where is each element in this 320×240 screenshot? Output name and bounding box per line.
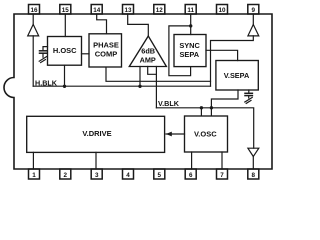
svg-text:V.SEPA: V.SEPA (224, 71, 250, 80)
svg-text:15: 15 (62, 7, 70, 14)
pin 3 box (91, 169, 102, 179)
pin 14 box (91, 5, 102, 15)
svg-text:10: 10 (218, 7, 226, 14)
wire H.OSC bottom to H.BLK bus (64, 65, 66, 86)
op-amp 6dB AMP triangle (129, 36, 166, 67)
wire 6dB AMP base left leg to H.BLK (139, 67, 141, 87)
node dot V.BLK/V.OSC (200, 106, 203, 109)
svg-text:11: 11 (187, 7, 194, 14)
svg-text:16: 16 (30, 7, 38, 14)
wire V.OSC to pin6 (191, 152, 193, 169)
wire V.OSC to V.DRIVE with arrow (166, 133, 185, 135)
wire buffer output down to H.BLK line (32, 36, 34, 86)
svg-text:6dB: 6dB (141, 46, 155, 55)
svg-text:3: 3 (95, 172, 99, 179)
pin 4 box (123, 169, 134, 179)
svg-text:SEPA: SEPA (180, 50, 200, 59)
block V.OSC (185, 116, 228, 152)
wire pin9 buffer output to vertical bus (211, 36, 254, 86)
wire pin11 to SYNC SEPA top (190, 14, 192, 35)
svg-text:12: 12 (156, 7, 164, 14)
wire pin16 to buffer (32, 14, 34, 24)
block V.SEPA (216, 61, 258, 91)
svg-text:H.OSC: H.OSC (53, 46, 77, 55)
svg-text:V.OSC: V.OSC (194, 130, 217, 139)
capacitor at H.OSC left (39, 47, 47, 63)
wire buffer to pin8 (252, 157, 254, 170)
wire 6dB AMP base middle leg (148, 67, 157, 75)
wire H.BLK bus (33, 85, 210, 87)
svg-text:7: 7 (220, 172, 224, 179)
wire pin9 to buffer (252, 14, 254, 25)
wire V.BLK to V.OSC top (200, 108, 202, 116)
pin 8 box (248, 169, 259, 179)
pin 16 box (29, 5, 40, 15)
wire PHASE COMP bottom bus to node under SYNC SEPA (106, 68, 211, 82)
svg-text:8: 8 (252, 172, 256, 179)
block SYNC SEPA (174, 35, 206, 67)
pin 9 box (248, 5, 259, 15)
block PHASE COMP (89, 34, 122, 67)
svg-text:SYNC: SYNC (179, 41, 200, 50)
buffer amp under pin 16 (28, 24, 39, 36)
wire H.OSC right to PHASE COMP left (82, 53, 90, 55)
pin 11 box (185, 5, 196, 15)
svg-text:AMP: AMP (140, 55, 156, 64)
svg-text:13: 13 (124, 7, 132, 14)
pin 12 box (154, 5, 165, 15)
svg-text:1: 1 (32, 172, 36, 179)
svg-text:H.BLK: H.BLK (35, 78, 58, 87)
pin 5 box (154, 169, 165, 179)
buffer amp under pin 9 (248, 25, 259, 36)
pin 2 box (60, 169, 71, 179)
wire pin11 branch loop to SYNC SEPA bottom (169, 26, 191, 76)
svg-text:4: 4 (126, 172, 130, 179)
pin 15 box (60, 5, 71, 15)
svg-text:V.BLK: V.BLK (158, 99, 180, 108)
wire V.OSC to pin7 (221, 152, 223, 169)
wire SYNC SEPA right to V.SEPA top (206, 50, 238, 60)
svg-text:5: 5 (158, 172, 162, 179)
block V.DRIVE (27, 116, 165, 152)
pin 13 box (123, 5, 134, 15)
wire pin15 to H.OSC top (64, 14, 66, 37)
svg-text:PHASE: PHASE (93, 40, 119, 49)
wire V.BLK bus to pin8 buffer column (156, 108, 253, 148)
svg-text:14: 14 (93, 7, 101, 14)
wire V.DRIVE to pin3 (95, 152, 97, 169)
svg-text:V.DRIVE: V.DRIVE (82, 129, 111, 138)
wire 6dB AMP base right leg down to V.BLK corner (155, 67, 157, 108)
wire V.SEPA bottom loop to V.OSC top (211, 90, 238, 116)
wire pin13 to 6dB AMP apex (128, 14, 149, 36)
node dot AMP/H.BLK (138, 85, 141, 88)
svg-text:2: 2 (64, 172, 68, 179)
block H.OSC (48, 37, 82, 66)
buffer amp down to pin 8 (248, 148, 259, 156)
pin 1 box (29, 169, 40, 179)
svg-text:9: 9 (252, 7, 256, 14)
capacitor at V.SEPA bottom (245, 90, 253, 103)
pin 10 box (217, 5, 228, 15)
node dot loop/V.BLK (210, 106, 213, 109)
svg-text:6: 6 (189, 172, 193, 179)
svg-text:COMP: COMP (95, 50, 118, 59)
pin 7 box (217, 169, 228, 179)
IC body outline with pin-1 notch (4, 14, 272, 169)
node dot pin11 branch (189, 24, 192, 27)
wire V.DRIVE to pin1 (32, 152, 34, 169)
pin 6 box (185, 169, 196, 179)
node dot H.OSC/H.BLK (63, 85, 66, 88)
wire pin14 to PHASE COMP top (97, 14, 107, 34)
